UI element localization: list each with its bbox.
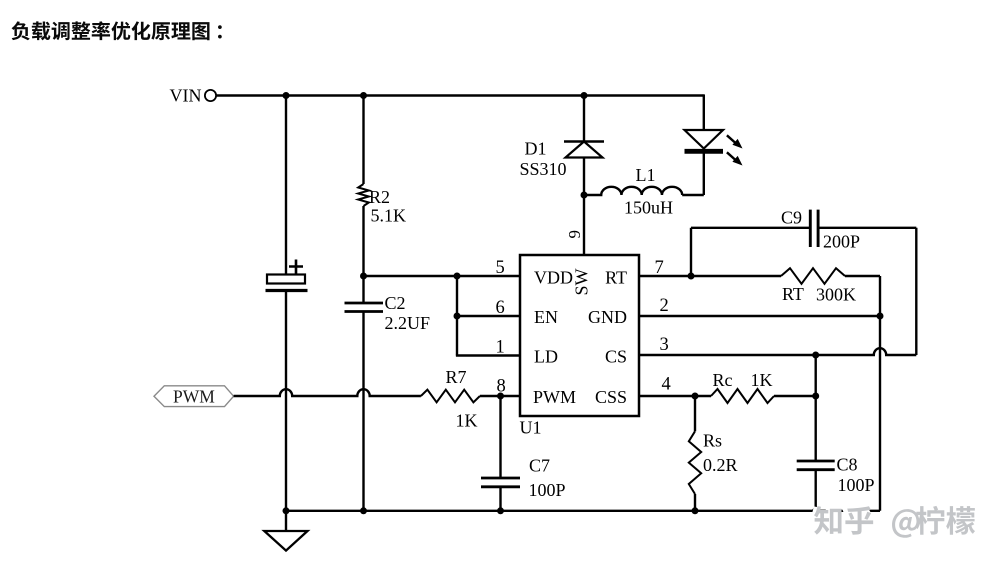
- wire pin8 to C7: [499, 396, 501, 478]
- LED triangle: [685, 130, 724, 149]
- svg-text:100P: 100P: [529, 480, 566, 500]
- wire RT to right drop: [845, 276, 880, 511]
- wire Rc to C8 branch: [774, 395, 816, 397]
- svg-text:4: 4: [662, 375, 671, 395]
- wire Rs to ground rail: [694, 494, 696, 511]
- wire LED branch drop: [703, 94, 705, 130]
- wire C9 left line: [691, 227, 810, 229]
- inductor L1: [584, 187, 682, 195]
- svg-text:3: 3: [660, 335, 669, 355]
- wire CS to C8: [815, 355, 817, 461]
- diode D1 cathode bar: [564, 140, 604, 143]
- capacitor C2: [345, 303, 384, 312]
- svg-text:PWM: PWM: [533, 387, 576, 407]
- svg-text:0.2R: 0.2R: [703, 455, 738, 475]
- svg-text:1K: 1K: [751, 370, 773, 390]
- svg-text:C2: C2: [385, 293, 406, 313]
- svg-text:EN: EN: [534, 307, 558, 327]
- wire ground rail: [286, 510, 880, 512]
- PWM net flag: [154, 386, 234, 407]
- svg-text:PWM: PWM: [173, 387, 215, 407]
- svg-text:2.2UF: 2.2UF: [385, 313, 431, 333]
- wire pin2 GND line: [639, 315, 880, 317]
- svg-text:LD: LD: [534, 347, 558, 367]
- svg-text:Rc: Rc: [713, 370, 733, 390]
- svg-text:RT: RT: [605, 268, 627, 288]
- svg-text:1K: 1K: [456, 411, 478, 431]
- wire top rail VIN to LED branch: [216, 94, 704, 96]
- junction dots: [283, 92, 290, 99]
- LED arrow 2: [727, 152, 737, 161]
- svg-text:6: 6: [496, 298, 505, 318]
- wire VDD pin5 line: [364, 275, 521, 277]
- resistor R2: [358, 184, 369, 206]
- wire C9 left drop: [690, 228, 692, 276]
- svg-text:VDD: VDD: [534, 268, 573, 288]
- wire C2 lower: [362, 312, 364, 511]
- capacitor C8: [797, 461, 835, 470]
- svg-text:100P: 100P: [838, 475, 875, 495]
- svg-text:200P: 200P: [823, 232, 860, 252]
- wire pin7 RT line: [639, 275, 781, 277]
- svg-text:D1: D1: [525, 139, 547, 159]
- wire EN LD tie vertical: [456, 276, 458, 356]
- capacitor C7: [481, 478, 520, 487]
- diode D1 triangle: [566, 142, 603, 158]
- wire D1 branch top: [583, 94, 585, 141]
- wire D1 to SW node: [583, 158, 585, 196]
- VIN terminal circle: [205, 90, 216, 101]
- wire SW pin9 stub: [583, 195, 585, 255]
- svg-text:2: 2: [660, 296, 669, 316]
- svg-text:SW: SW: [572, 268, 592, 295]
- capacitor C9: [810, 210, 818, 247]
- op-amp U1 body: [520, 255, 639, 416]
- svg-text:R2: R2: [369, 187, 390, 207]
- wire R7 to pin8: [480, 395, 520, 397]
- wire EN pin6 line: [457, 315, 520, 317]
- wire R2 branch upper: [362, 96, 364, 185]
- polarized capacitor bottom plate: [266, 289, 308, 292]
- resistor R7: [421, 390, 480, 403]
- svg-text:9: 9: [565, 230, 584, 239]
- wire C8 to ground rail: [815, 470, 817, 511]
- ground symbol: [264, 531, 307, 551]
- wire R2 to C2: [362, 206, 364, 303]
- svg-text:SS310: SS310: [520, 159, 567, 179]
- LED cathode bar: [685, 149, 724, 154]
- svg-text:5.1K: 5.1K: [371, 206, 407, 226]
- svg-text:Rs: Rs: [703, 431, 722, 451]
- svg-text:R7: R7: [446, 367, 467, 387]
- svg-text:5: 5: [496, 258, 505, 278]
- watermark 知乎 @柠檬: [812, 508, 973, 540]
- svg-text:150uH: 150uH: [624, 198, 673, 218]
- wire ground stem: [285, 511, 287, 531]
- wire LED cathode to L1: [703, 154, 705, 196]
- resistor Rc: [711, 389, 774, 403]
- svg-text:300K: 300K: [816, 285, 856, 305]
- resistor RT: [781, 268, 845, 284]
- wire C9 right line: [818, 228, 916, 355]
- svg-text:VIN: VIN: [170, 86, 202, 106]
- svg-text:C7: C7: [529, 456, 550, 476]
- svg-text:L1: L1: [636, 165, 656, 185]
- svg-text:C8: C8: [837, 455, 858, 475]
- svg-text:U1: U1: [520, 418, 542, 438]
- wire pin3 CS line with hop: [639, 348, 916, 355]
- wire L1 right to LED: [682, 194, 704, 196]
- wire bulk-cap branch upper: [285, 96, 287, 275]
- svg-text:RT: RT: [782, 284, 804, 304]
- polarized capacitor top plate: [267, 275, 305, 284]
- svg-text:CS: CS: [605, 347, 627, 367]
- polarized capacitor plus sign: [289, 260, 303, 274]
- svg-text:C9: C9: [781, 208, 802, 228]
- svg-text:GND: GND: [588, 307, 627, 327]
- svg-text:1: 1: [496, 338, 505, 358]
- wire pin4 CSS line: [639, 395, 711, 397]
- svg-text:CSS: CSS: [595, 387, 627, 407]
- wire pin4 to Rs: [694, 396, 696, 431]
- resistor Rs: [689, 431, 701, 494]
- wire C7 to ground rail: [499, 487, 501, 511]
- wire PWM line with hops: [234, 389, 421, 396]
- title text 负载调整率优化原理图：: [12, 21, 222, 40]
- wire bulk-cap branch lower: [285, 291, 287, 511]
- wire LD pin1 line: [456, 354, 520, 356]
- LED arrow 1: [727, 135, 737, 144]
